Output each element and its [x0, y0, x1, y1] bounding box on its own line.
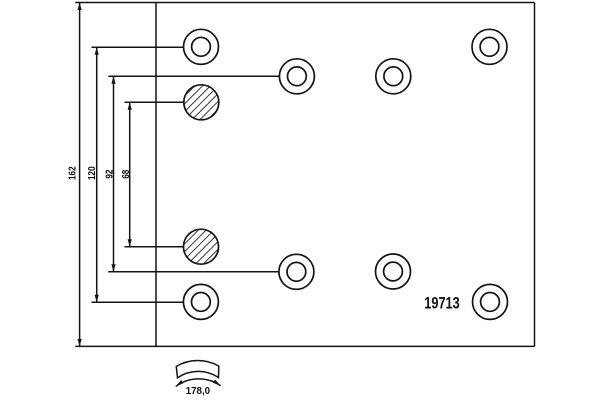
arrow 120 top [95, 47, 99, 55]
arrow 68 bottom [128, 239, 132, 247]
hole ring R7 inner [192, 293, 211, 312]
hole ring R4 outer [376, 59, 411, 94]
hole ring R3 inner [288, 67, 307, 86]
svg-text:92: 92 [102, 170, 114, 179]
hole ring R2 inner [480, 37, 499, 56]
arrow 92 bottom [111, 264, 115, 272]
extension line row 4 [125, 246, 184, 248]
hole ring R2 outer [472, 29, 507, 64]
svg-text:178,0: 178,0 [186, 386, 211, 397]
hole ring R1 outer [184, 29, 219, 64]
hole ring R8 inner [481, 293, 500, 312]
arrow 162 top [78, 3, 82, 11]
hole ring R5 inner [287, 262, 306, 281]
lining arc band (side profile) [176, 361, 219, 378]
arrowheads [78, 3, 132, 347]
extension line row 5 [108, 271, 279, 273]
hole ring R8 outer [473, 284, 508, 319]
arrow 68 top [128, 102, 132, 110]
svg-text:120: 120 [85, 166, 97, 180]
extension line row 2 [108, 75, 280, 77]
plate bottom edge [75, 345, 534, 347]
extension line row 6 [92, 301, 184, 303]
hole ring R7 outer [183, 284, 218, 319]
extension line row 3 [125, 101, 184, 103]
svg-text:68: 68 [119, 170, 131, 179]
hole ring R6 outer [376, 254, 411, 289]
hole ring R3 outer [279, 59, 314, 94]
arc-length dimension arc [176, 379, 221, 387]
arrow 92 top [111, 76, 115, 84]
hatched hole H2 [184, 229, 219, 264]
dimension line 68 [129, 102, 131, 246]
hatched hole H1 [184, 85, 219, 120]
extension line row 1 [92, 46, 184, 48]
dimension line 162 [79, 3, 81, 347]
plate top edge [75, 2, 534, 4]
arc dimension right arrowhead [213, 380, 221, 386]
hole ring R1 inner [192, 37, 211, 56]
hole ring R6 inner [384, 262, 403, 281]
svg-text:19713: 19713 [424, 294, 459, 313]
arrow 162 bottom [78, 339, 82, 347]
plate left edge [155, 3, 157, 347]
svg-text:162: 162 [66, 166, 78, 180]
plate right edge [534, 3, 536, 347]
dimension line 120 [96, 47, 98, 302]
hole ring R5 outer [279, 254, 314, 289]
hole ring R4 inner [384, 67, 403, 86]
arc dimension left arrowhead [176, 380, 184, 386]
arrow 120 bottom [95, 295, 99, 303]
dimension line 92 [113, 76, 115, 271]
